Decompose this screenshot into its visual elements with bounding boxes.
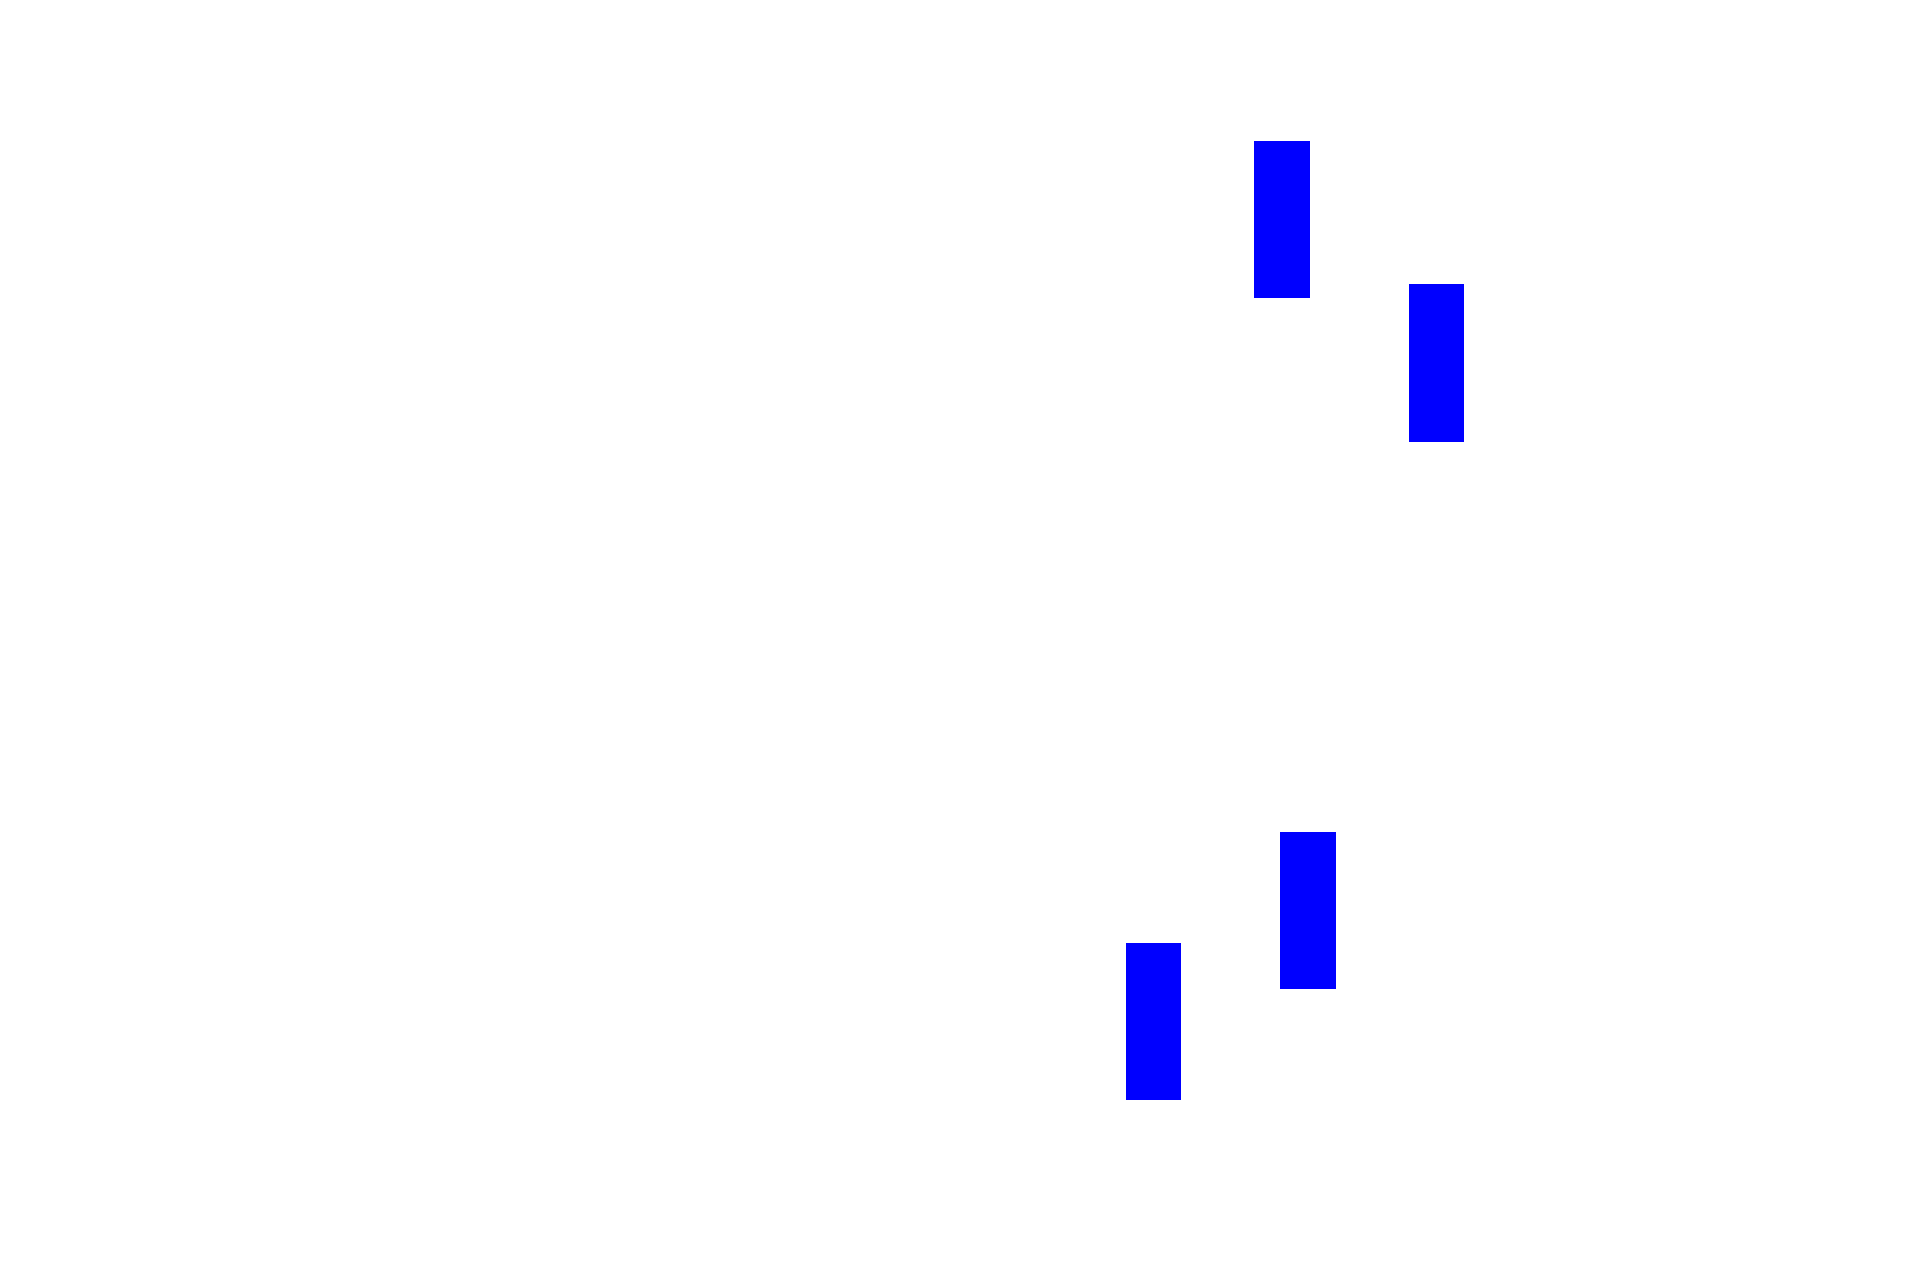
candlestick bar 3 (lower-middle blue candle body): [1280, 832, 1336, 990]
candlestick bar 1 (top-left blue candle body): [1254, 141, 1310, 298]
candlestick bar 4 (lower-left blue candle body): [1126, 943, 1181, 1100]
candlestick bar 2 (top-right blue candle body): [1409, 284, 1464, 442]
